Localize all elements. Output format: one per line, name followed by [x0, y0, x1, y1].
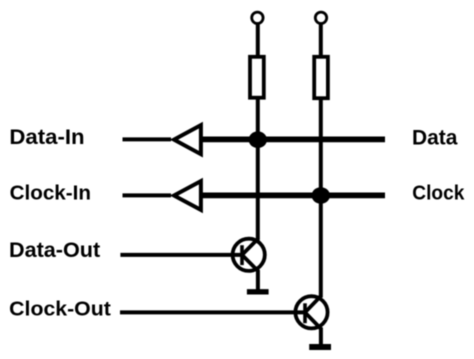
svg-text:Data-Out: Data-Out [9, 239, 100, 262]
svg-text:Clock-In: Clock-In [10, 182, 91, 204]
svg-text:Data: Data [412, 126, 458, 149]
svg-text:Clock: Clock [412, 183, 465, 205]
svg-text:Data-In: Data-In [9, 126, 84, 149]
svg-text:Clock-Out: Clock-Out [9, 298, 111, 320]
